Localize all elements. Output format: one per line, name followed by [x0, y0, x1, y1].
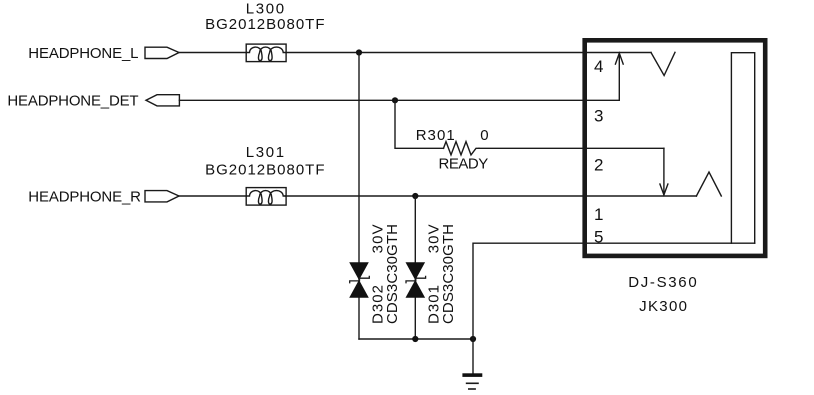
- wire vertical from DET junction down to resistor R301: [395, 100, 444, 148]
- wire HEADPHONE_R row: flag to inductor L301: [179, 195, 246, 197]
- node junction bottom rail at D301: [412, 336, 418, 342]
- connector JK300 outline (thick box): [585, 40, 766, 256]
- jack pin 2 arm: down arrow onto pin 1 line: [660, 148, 668, 195]
- wire HEADPHONE_R row: inductor L301 to jack pin 1 contact: [285, 195, 696, 197]
- node junction on HEADPHONE_DET row: [392, 97, 398, 103]
- svg-text:1: 1: [594, 205, 603, 224]
- svg-text:HEADPHONE_R: HEADPHONE_R: [28, 188, 141, 205]
- wire jack pin 5 to ground stem: [473, 243, 755, 373]
- svg-text:5: 5: [594, 227, 603, 246]
- svg-text:L300: L300: [246, 1, 286, 18]
- diode D301 (bidirectional TVS): [406, 262, 426, 297]
- svg-text:R301: R301: [416, 127, 456, 144]
- svg-text:READY: READY: [439, 156, 489, 173]
- wire HEADPHONE_DET row: flag to jack detect arm: [179, 99, 619, 101]
- wire HEADPHONE_L row: inductor L300 to jack pin 4 contact: [286, 52, 651, 54]
- svg-text:L301: L301: [246, 144, 286, 161]
- svg-text:CDS3C30GTH: CDS3C30GTH: [440, 224, 457, 324]
- diode D302 (bidirectional TVS): [349, 262, 369, 297]
- svg-text:CDS3C30GTH: CDS3C30GTH: [384, 224, 401, 324]
- wire vertical from HEADPHONE_R junction down to diode D301 / bottom rail: [414, 196, 416, 339]
- wire bottom rail joining D302 and D301 anodes to ground net: [359, 338, 473, 340]
- jack ring contact caret symbol: [696, 172, 721, 196]
- resistor R301 zigzag: [444, 142, 480, 155]
- inductor L300 coil: [247, 47, 286, 61]
- inductor L300 body box: [246, 44, 286, 62]
- svg-text:BG2012B080TF: BG2012B080TF: [205, 161, 325, 178]
- node junction bottom rail at ground stem: [470, 336, 476, 342]
- jack sleeve bar: [731, 53, 754, 244]
- jack tip contact V symbol: [651, 52, 675, 75]
- port flag HEADPHONE_L: [145, 47, 179, 58]
- svg-text:4: 4: [594, 57, 603, 76]
- inductor L301 coil: [247, 191, 286, 205]
- svg-text:JK300: JK300: [639, 298, 688, 315]
- node junction on HEADPHONE_L row: [356, 49, 362, 55]
- port flag HEADPHONE_R: [145, 191, 179, 202]
- svg-text:3: 3: [594, 106, 603, 125]
- svg-text:HEADPHONE_L: HEADPHONE_L: [28, 45, 138, 62]
- node junction on HEADPHONE_R row: [412, 193, 418, 199]
- ground symbol: [462, 373, 482, 389]
- svg-text:BG2012B080TF: BG2012B080TF: [205, 16, 325, 33]
- port flag HEADPHONE_DET: [146, 95, 179, 106]
- svg-text:2: 2: [594, 156, 603, 175]
- wire READY: resistor R301 to jack pin 2 arm: [479, 147, 664, 149]
- inductor L301 body box: [246, 188, 286, 206]
- svg-text:DJ-S360: DJ-S360: [628, 274, 698, 291]
- svg-text:HEADPHONE_DET: HEADPHONE_DET: [7, 93, 138, 110]
- jack detect arm: up arrow from pin 3 to pin 4 line: [615, 53, 623, 100]
- wire HEADPHONE_L row: flag to inductor L300: [179, 52, 246, 54]
- svg-text:0: 0: [480, 127, 488, 144]
- wire vertical from HEADPHONE_L junction down to diode D302 / bottom rail: [358, 53, 360, 340]
